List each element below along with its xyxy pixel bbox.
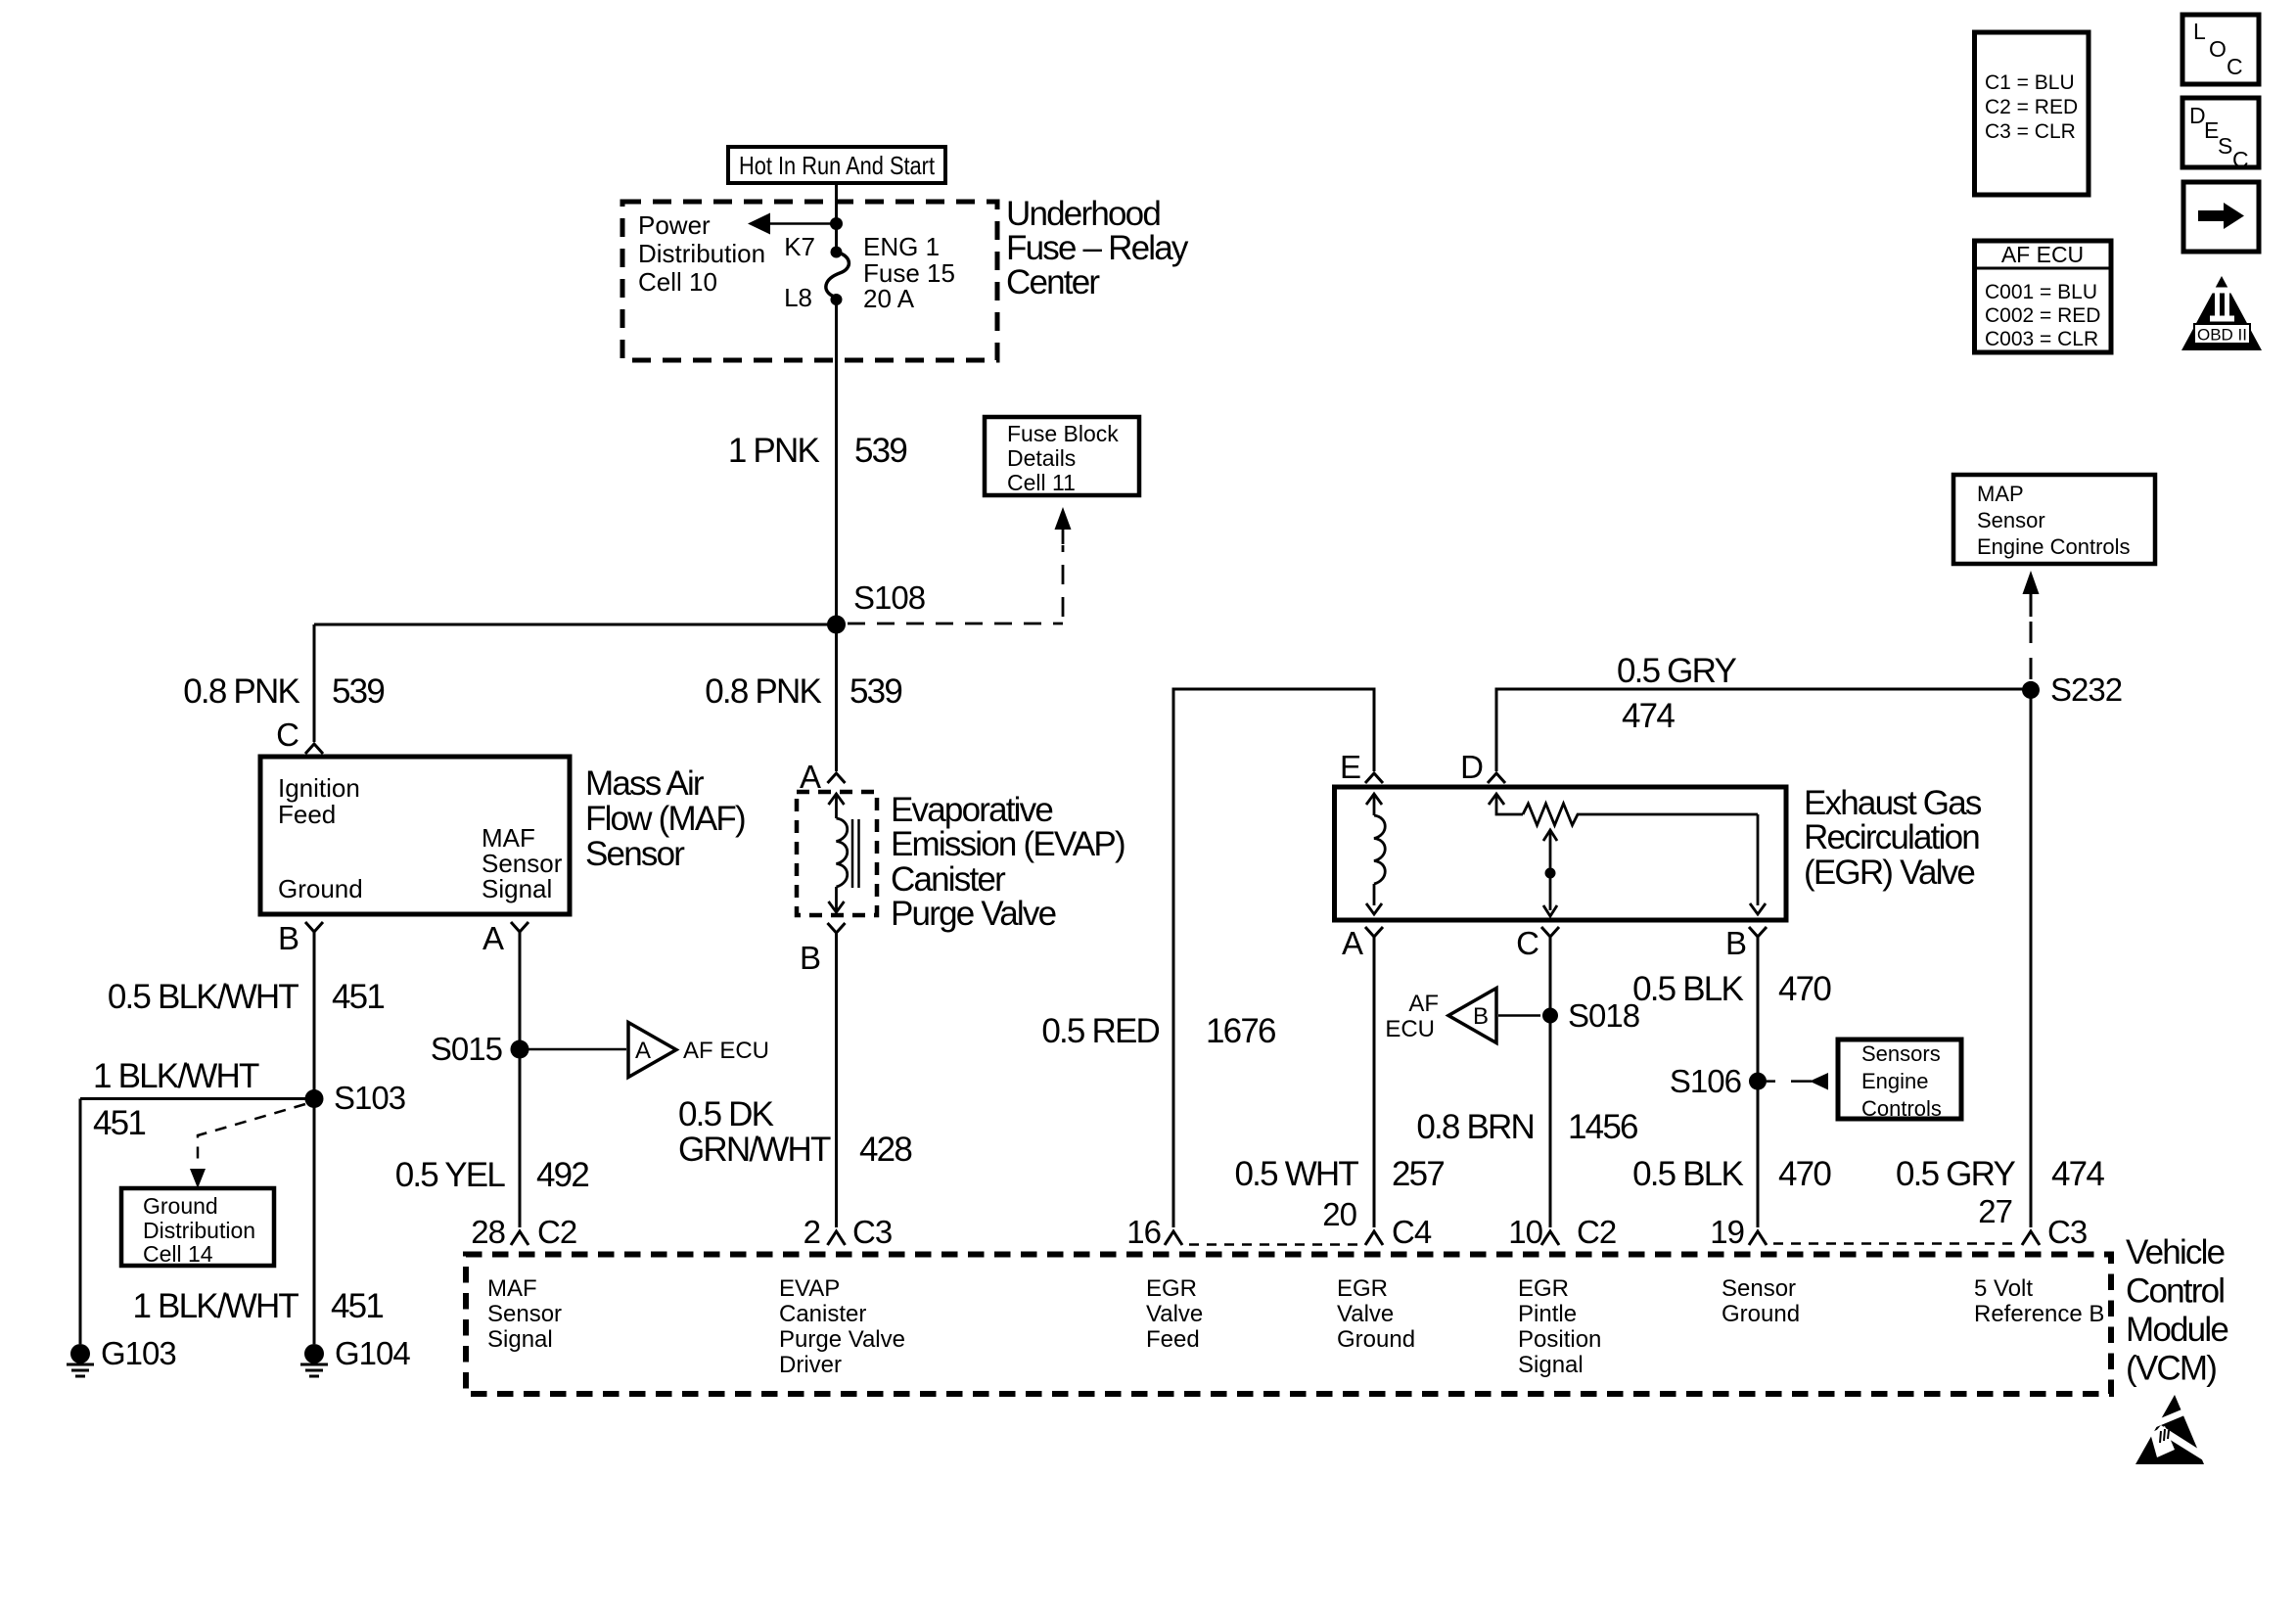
label: 0.5 WHT 257: [1235, 1155, 1445, 1193]
svg-text:S103: S103: [334, 1080, 405, 1116]
wire: S232 down to VCM pin 27: [2030, 690, 2033, 1227]
fuse ENG 1 Fuse 15 20 A: [826, 247, 850, 306]
svg-text:0.5 WHT: 0.5 WHT: [1235, 1155, 1359, 1193]
svg-text:A: A: [635, 1038, 651, 1064]
svg-text:A: A: [482, 920, 504, 956]
svg-text:OBD II: OBD II: [2197, 326, 2247, 345]
svg-text:10: 10: [1508, 1214, 1542, 1250]
svg-text:S108: S108: [853, 579, 925, 616]
svg-text:S106: S106: [1670, 1063, 1741, 1099]
wire: S103 branch to G103: [80, 1099, 314, 1345]
svg-text:ECU: ECU: [1385, 1016, 1435, 1042]
label: 0.5 BLK 470 (upper): [1632, 970, 1831, 1008]
svg-text:470: 470: [1778, 970, 1831, 1008]
svg-text:S232: S232: [2050, 671, 2122, 708]
arrow legend box: [2183, 182, 2259, 252]
svg-text:Module: Module: [2126, 1311, 2227, 1349]
svg-text:20: 20: [1322, 1196, 1356, 1232]
svg-text:(EGR) Valve: (EGR) Valve: [1804, 854, 1974, 892]
svg-text:Sensor: Sensor: [1977, 508, 2045, 532]
svg-text:Mass Air: Mass Air: [585, 764, 705, 803]
svg-text:451: 451: [332, 978, 384, 1016]
label: EVAP Canister Purge Valve Driver: [779, 1275, 905, 1378]
DESC legend box: [2182, 98, 2259, 172]
wire: down to MAF pin C: [313, 624, 316, 742]
svg-text:Driver: Driver: [779, 1352, 842, 1378]
svg-text:Purge Valve: Purge Valve: [891, 895, 1056, 933]
svg-text:C2: C2: [537, 1214, 576, 1250]
svg-text:O: O: [2209, 36, 2227, 62]
svg-text:1 BLK/WHT: 1 BLK/WHT: [132, 1287, 298, 1325]
legend box C1=BLU C2=RED C3=CLR: [1975, 32, 2089, 195]
label: 0.5 RED 1676: [1041, 1012, 1275, 1050]
ESD warning symbol: [2135, 1395, 2212, 1464]
svg-text:Center: Center: [1006, 263, 1100, 301]
VCM pin 27 C3: [1978, 1193, 2087, 1250]
label: MAF Sensor Signal: [482, 823, 563, 903]
label: Exhaust Gas Recirculation (EGR) Valve: [1804, 784, 1982, 892]
VCM pin 10 C2: [1508, 1214, 1616, 1250]
svg-text:20 A: 20 A: [863, 284, 915, 313]
svg-text:C: C: [276, 716, 298, 753]
svg-text:B: B: [278, 920, 298, 956]
svg-text:C003 = CLR: C003 = CLR: [1985, 328, 2098, 350]
svg-text:19: 19: [1710, 1214, 1744, 1250]
svg-text:AF ECU: AF ECU: [2001, 242, 2084, 267]
svg-text:Vehicle: Vehicle: [2126, 1233, 2225, 1271]
svg-text:Sensor: Sensor: [487, 1301, 562, 1327]
svg-text:Ground: Ground: [1722, 1301, 1800, 1327]
svg-text:0.8 BRN: 0.8 BRN: [1416, 1108, 1534, 1146]
connector C3 dashed tie 19 to 27: [1773, 1242, 2020, 1245]
svg-text:1676: 1676: [1206, 1012, 1275, 1050]
svg-text:S: S: [2218, 133, 2232, 159]
svg-text:Cell 14: Cell 14: [143, 1241, 213, 1267]
svg-text:0.8 PNK: 0.8 PNK: [183, 672, 299, 711]
svg-text:Hot In Run And Start: Hot In Run And Start: [739, 151, 936, 180]
pin E of EGR valve: [1340, 749, 1383, 785]
svg-text:MAF: MAF: [487, 1275, 537, 1302]
svg-text:EGR: EGR: [1518, 1275, 1569, 1302]
connector C4 dashed tie 16 to 20: [1189, 1243, 1362, 1246]
EGR potentiometer resistor (D to B): [1489, 794, 1766, 914]
OBD II symbol: [2181, 276, 2262, 350]
svg-text:0.5 RED: 0.5 RED: [1041, 1012, 1159, 1050]
pin C of MAF sensor: [276, 716, 323, 754]
label: 1 BLK/WHT 451 (right branch): [132, 1287, 383, 1325]
svg-text:474: 474: [2051, 1155, 2104, 1193]
wire: feed from Hot In Run box into fuse: [835, 183, 838, 247]
svg-text:S018: S018: [1568, 997, 1639, 1034]
label: Evaporative Emission (EVAP) Canister Purge Valve: [891, 791, 1125, 933]
Hot In Run And Start label box: [728, 147, 945, 183]
svg-text:Power: Power: [638, 210, 711, 240]
connector triangle B to AF ECU: [1385, 989, 1496, 1043]
svg-text:0.5 BLK: 0.5 BLK: [1632, 1155, 1743, 1193]
svg-text:Exhaust Gas: Exhaust Gas: [1804, 784, 1982, 822]
svg-text:C1 = BLU: C1 = BLU: [1985, 71, 2075, 94]
svg-text:Canister: Canister: [779, 1301, 866, 1327]
label: 0.5 GRY 474 (top run): [1617, 652, 1736, 735]
svg-text:Flow (MAF): Flow (MAF): [585, 800, 745, 838]
node S108: [827, 616, 846, 634]
wire: dashed reference S232 up to MAP Sensor: [2023, 571, 2040, 679]
pin B of MAF sensor: [278, 920, 323, 956]
wire: S108 horizontal to MAF ignition feed: [314, 624, 837, 626]
label: Power Distribution Cell 10: [638, 210, 765, 297]
wire: EGR A down to VCM pin 20: [1373, 937, 1376, 1227]
svg-text:A: A: [800, 759, 821, 795]
svg-text:Underhood: Underhood: [1006, 195, 1160, 233]
svg-text:Feed: Feed: [278, 800, 336, 829]
svg-text:Signal: Signal: [1518, 1352, 1584, 1378]
svg-text:Signal: Signal: [487, 1326, 553, 1353]
label: MAF Sensor Signal (VCM): [487, 1275, 562, 1353]
svg-text:451: 451: [93, 1104, 145, 1142]
AF ECU legend box: [1975, 241, 2112, 352]
svg-text:S015: S015: [431, 1031, 502, 1067]
wire: 1 PNK 539 from fuse down to S108: [835, 300, 838, 771]
svg-text:0.5 GRY: 0.5 GRY: [1617, 652, 1736, 690]
svg-text:428: 428: [859, 1131, 911, 1169]
svg-text:Ground: Ground: [143, 1193, 218, 1219]
svg-text:0.5 GRY: 0.5 GRY: [1896, 1155, 2015, 1193]
svg-text:AF ECU: AF ECU: [683, 1038, 769, 1064]
svg-text:0.8 PNK: 0.8 PNK: [705, 672, 821, 711]
Underhood Fuse-Relay Center dashed box: [622, 202, 997, 360]
pin A of EGR valve: [1342, 925, 1383, 961]
node: junction to power distribution arrow: [830, 217, 843, 230]
wire: S106 dashed reference to Sensors Engine Controls: [1767, 1073, 1828, 1090]
svg-text:ENG 1: ENG 1: [863, 232, 940, 261]
svg-text:Sensor: Sensor: [585, 835, 685, 873]
svg-text:Cell 10: Cell 10: [638, 267, 717, 297]
svg-text:E: E: [1340, 749, 1360, 785]
svg-text:Controls: Controls: [1861, 1096, 1942, 1121]
svg-text:B: B: [1725, 925, 1746, 961]
label: 0.8 PNK 539 left branch: [183, 672, 384, 711]
pin D of EGR valve: [1460, 749, 1505, 785]
svg-text:492: 492: [536, 1156, 588, 1194]
wire: EGR valve feed (pin E up over to VCM pin 16): [1173, 689, 1374, 1227]
label: 0.5 BLK/WHT 451: [108, 978, 384, 1016]
label: 0.5 YEL 492: [395, 1156, 589, 1194]
VCM pin 16: [1126, 1214, 1182, 1250]
svg-text:Reference B: Reference B: [1974, 1301, 2104, 1327]
VCM pin 28 C2: [471, 1214, 576, 1250]
label: 0.8 PNK 539 center branch: [705, 672, 901, 711]
svg-text:0.5 BLK: 0.5 BLK: [1632, 970, 1743, 1008]
svg-text:Emission (EVAP): Emission (EVAP): [891, 825, 1125, 863]
label: EGR Pintle Position Signal: [1518, 1275, 1601, 1378]
svg-text:1 BLK/WHT: 1 BLK/WHT: [93, 1057, 259, 1095]
svg-text:K7: K7: [784, 232, 815, 261]
label: ENG 1 Fuse 15 20 A: [863, 232, 955, 313]
svg-text:Feed: Feed: [1146, 1326, 1200, 1353]
svg-text:539: 539: [854, 432, 906, 470]
wire: S018 to AF ECU triangle B: [1498, 1014, 1540, 1017]
label: 0.5 DK GRN/WHT 428: [678, 1095, 911, 1169]
Sensors Engine Controls box: [1838, 1039, 1961, 1121]
svg-text:Cell 11: Cell 11: [1007, 470, 1076, 495]
svg-text:27: 27: [1978, 1193, 2012, 1229]
Ground Distribution Cell 14 box: [121, 1188, 274, 1267]
svg-text:A: A: [1342, 925, 1363, 961]
label: Ignition Feed: [278, 773, 360, 829]
svg-text:B: B: [1473, 1003, 1489, 1030]
wire: dashed reference from S108 to Fuse Block Details: [848, 507, 1072, 624]
pin A of MAF sensor: [482, 920, 528, 956]
svg-text:Ground: Ground: [278, 874, 363, 903]
wire: MAF ground B down to G104: [313, 932, 316, 1344]
label: Vehicle Control Module (VCM): [2126, 1233, 2227, 1388]
svg-text:Fuse Block: Fuse Block: [1007, 421, 1119, 446]
svg-text:470: 470: [1778, 1155, 1831, 1193]
wire: EVAP B down to VCM pin 2: [835, 933, 838, 1227]
svg-text:Ground: Ground: [1337, 1326, 1415, 1353]
label: Mass Air Flow (MAF) Sensor: [585, 764, 745, 873]
svg-text:Purge Valve: Purge Valve: [779, 1326, 905, 1353]
svg-text:Valve: Valve: [1146, 1301, 1203, 1327]
svg-text:C2: C2: [1577, 1214, 1616, 1250]
svg-text:451: 451: [331, 1287, 383, 1325]
node S018: [1542, 1008, 1558, 1024]
label: 1 BLK/WHT 451 (left branch): [93, 1057, 259, 1142]
svg-text:539: 539: [332, 672, 384, 711]
wire: MAF signal A down to VCM pin 28: [519, 932, 522, 1227]
svg-text:(VCM): (VCM): [2126, 1350, 2216, 1388]
pin C of EGR valve: [1516, 925, 1559, 961]
svg-text:Fuse – Relay: Fuse – Relay: [1006, 229, 1189, 267]
wire: S015 to AF ECU triangle A: [528, 1048, 626, 1051]
svg-text:C3: C3: [852, 1214, 892, 1250]
svg-text:Engine Controls: Engine Controls: [1977, 534, 2131, 559]
svg-text:Sensors: Sensors: [1861, 1041, 1941, 1066]
svg-text:C002 = RED: C002 = RED: [1985, 304, 2100, 327]
svg-text:MAP: MAP: [1977, 482, 2024, 506]
svg-text:Distribution: Distribution: [143, 1218, 255, 1243]
svg-text:Recirculation: Recirculation: [1804, 818, 1979, 856]
svg-text:C: C: [2227, 54, 2243, 79]
EVAP canister purge valve dashed box: [797, 792, 877, 915]
svg-text:257: 257: [1392, 1155, 1444, 1193]
svg-text:5 Volt: 5 Volt: [1974, 1275, 2033, 1302]
LOC legend box: [2182, 15, 2259, 84]
svg-text:539: 539: [850, 672, 901, 711]
svg-text:1456: 1456: [1568, 1108, 1637, 1146]
svg-text:G103: G103: [101, 1335, 176, 1371]
svg-text:C3: C3: [2047, 1214, 2087, 1250]
svg-text:C001 = BLU: C001 = BLU: [1985, 281, 2097, 303]
label: 1 PNK 539: [728, 432, 906, 470]
label: 5 Volt Reference B: [1974, 1275, 2104, 1327]
label: 0.5 BLK 470 (lower): [1632, 1155, 1831, 1193]
svg-text:Control: Control: [2126, 1272, 2224, 1311]
svg-text:28: 28: [471, 1214, 505, 1250]
MAF sensor box: [260, 757, 570, 914]
svg-text:474: 474: [1622, 697, 1675, 735]
label: Sensor Ground: [1722, 1275, 1800, 1327]
svg-text:0.5 YEL: 0.5 YEL: [395, 1156, 506, 1194]
svg-text:Signal: Signal: [482, 874, 552, 903]
svg-text:GRN/WHT: GRN/WHT: [678, 1131, 831, 1169]
node S232: [2022, 681, 2040, 699]
svg-text:1 PNK: 1 PNK: [728, 432, 820, 470]
svg-text:C4: C4: [1392, 1214, 1432, 1250]
svg-text:Position: Position: [1518, 1326, 1601, 1353]
svg-text:Valve: Valve: [1337, 1301, 1394, 1327]
svg-text:Details: Details: [1007, 445, 1076, 471]
EGR solenoid coil (E to A): [1366, 794, 1385, 914]
svg-text:Sensor: Sensor: [1722, 1275, 1796, 1302]
connector triangle A to AF ECU: [628, 1023, 769, 1078]
label: EGR Valve Ground: [1337, 1275, 1415, 1353]
wire: dashed reference S103 to Ground Distribution: [190, 1104, 305, 1188]
ground G103: [67, 1335, 176, 1376]
VCM pin 19: [1710, 1214, 1767, 1250]
node S015: [511, 1040, 529, 1059]
svg-text:0.5 DK: 0.5 DK: [678, 1095, 774, 1133]
pin B of EVAP valve: [800, 923, 846, 976]
label: 0.5 GRY 474 (down run): [1896, 1155, 2104, 1193]
wire: EGR B down to VCM pin 19: [1757, 937, 1760, 1227]
VCM pin 20 C4: [1322, 1196, 1432, 1250]
EGR valve box: [1335, 787, 1787, 920]
wire: EGR pin D up and right to S232: [1496, 689, 2031, 771]
svg-text:Evaporative: Evaporative: [891, 791, 1052, 829]
Vehicle Control Module dashed box: [466, 1255, 2111, 1395]
EGR pintle wiper (pin C): [1543, 830, 1557, 916]
ground G104: [300, 1335, 410, 1376]
svg-text:Distribution: Distribution: [638, 239, 765, 268]
pin A of EVAP valve: [800, 759, 846, 795]
wire: arrow to Power Distribution: [748, 213, 837, 235]
svg-text:C: C: [2232, 147, 2249, 172]
EVAP solenoid coil and core: [829, 794, 859, 912]
svg-text:EGR: EGR: [1337, 1275, 1388, 1302]
svg-text:L: L: [2193, 19, 2206, 44]
svg-text:Engine: Engine: [1861, 1069, 1929, 1093]
node S103: [305, 1089, 324, 1108]
svg-text:C: C: [1516, 925, 1538, 961]
svg-text:C2 = RED: C2 = RED: [1985, 96, 2078, 118]
label: 0.8 BRN 1456: [1416, 1108, 1637, 1146]
svg-text:L8: L8: [784, 283, 812, 312]
svg-text:2: 2: [804, 1214, 820, 1250]
VCM pin 2 C3: [804, 1214, 893, 1250]
label: EGR Valve Feed: [1146, 1275, 1203, 1353]
pin B of EGR valve: [1725, 925, 1767, 961]
svg-text:Canister: Canister: [891, 860, 1006, 899]
svg-text:EGR: EGR: [1146, 1275, 1197, 1302]
svg-text:0.5 BLK/WHT: 0.5 BLK/WHT: [108, 978, 299, 1016]
svg-text:Pintle: Pintle: [1518, 1301, 1577, 1327]
svg-text:EVAP: EVAP: [779, 1275, 840, 1302]
label: Underhood Fuse-Relay Center: [1006, 195, 1189, 301]
svg-text:AF: AF: [1408, 991, 1439, 1017]
svg-text:G104: G104: [335, 1335, 410, 1371]
MAP Sensor Engine Controls box: [1953, 475, 2155, 564]
svg-text:C3 = CLR: C3 = CLR: [1985, 120, 2076, 143]
svg-text:B: B: [800, 940, 820, 976]
node S106: [1749, 1073, 1767, 1090]
wire: EGR C down to VCM pin 10: [1549, 937, 1552, 1227]
svg-text:D: D: [1460, 749, 1483, 785]
Fuse Block Details Cell 11 box: [985, 417, 1139, 495]
svg-text:Ignition: Ignition: [278, 773, 360, 803]
svg-text:16: 16: [1126, 1214, 1161, 1250]
